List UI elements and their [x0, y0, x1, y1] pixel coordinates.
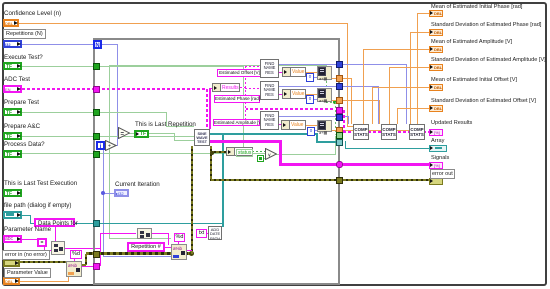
insert into array node 2 — [317, 88, 332, 102]
tunnel prepare a&c green — [93, 133, 100, 140]
wire prepare a&c green — [22, 136, 194, 137]
label Signals — [431, 155, 449, 161]
svg-text:=: = — [121, 132, 125, 138]
control Prepare A&C TF — [3, 132, 22, 140]
wire std amplitude riser — [389, 67, 390, 124]
wire fan stub find1 — [245, 66, 260, 67]
wire estimated phase const stub — [257, 99, 262, 100]
string constant Estimated Offset [V] — [217, 69, 262, 77]
vi SINE WAVE TEST — [194, 129, 210, 146]
string constant Data Points for — [34, 218, 75, 227]
wire iteration i vertical blue — [103, 150, 104, 257]
string constant space/equals — [37, 238, 47, 247]
vi FIND NAME RES 3 — [260, 111, 279, 130]
wire mean offset riser — [372, 87, 373, 124]
tunnel array2 orange right — [336, 97, 343, 104]
wire or-gate output green — [276, 154, 336, 155]
label Parameter Name — [4, 227, 51, 234]
wire find3 to value3 — [278, 124, 282, 125]
control error in cluster — [3, 259, 20, 267]
wire zero3 stub blue — [313, 130, 317, 131]
wire green horizontal to tunnel — [335, 134, 338, 135]
wire updated results chain — [343, 131, 429, 133]
junction dot error bottom — [189, 251, 194, 256]
wire row2 drop — [379, 100, 380, 124]
wire row3 reference blue — [278, 116, 336, 117]
wire value2 out orange — [306, 94, 317, 95]
wire zero1 stub blue — [313, 77, 317, 78]
wire file path teal stub — [22, 215, 31, 216]
wire equality output jog — [174, 133, 175, 141]
tunnel error out olive right — [336, 177, 343, 184]
vi COMP STATS 1 — [353, 124, 369, 140]
label Prepare Test — [4, 100, 39, 107]
numeric constant 0 row3 — [307, 127, 315, 136]
wire green dotted vertical right — [326, 81, 327, 103]
concatenate strings node 2 — [137, 228, 152, 239]
indicator std phase DBL — [429, 29, 443, 36]
wire std phase riser — [410, 32, 411, 124]
wire updated results dashed pink — [343, 110, 345, 132]
wire ref row1 blue outside — [343, 64, 407, 65]
wire std offset orange — [397, 108, 429, 109]
wire concat2 drop — [168, 233, 169, 245]
format into string node 1 — [66, 261, 82, 277]
vi ADD DATE PATH — [208, 226, 222, 240]
wire long green left vertical — [109, 65, 110, 238]
wire confidence vertical drop — [347, 23, 348, 126]
label Process Data? — [4, 142, 45, 149]
wire estimated offset const stub — [258, 73, 262, 74]
string constant Estimated Phase [rad] — [214, 95, 260, 103]
wire fan stub find3 — [245, 124, 260, 125]
wire prepare test green — [22, 112, 166, 113]
control Execute Test TF — [3, 62, 22, 70]
wire mean phase riser — [417, 13, 418, 124]
wire error riser to sine — [191, 146, 193, 254]
wire prepare test into sine vi — [166, 126, 194, 127]
wire signals thick pink from sine — [209, 140, 282, 143]
wire zero2 stub blue — [313, 99, 317, 100]
wire ADC to updated results tunnel dashed — [245, 108, 336, 110]
wire error to status unbundle — [211, 151, 226, 153]
wire ref row3 blue outside — [343, 116, 349, 117]
control Parameter Value DBL — [3, 277, 20, 285]
wire array jog — [345, 141, 346, 149]
wire std phase orange — [410, 32, 429, 33]
indicator std offset DBL — [429, 105, 443, 112]
string constant txt — [196, 229, 207, 238]
tunnel ref row2 blue right — [336, 83, 343, 90]
tunnel ref row1 blue right — [336, 61, 343, 68]
tunnel file path teal — [93, 220, 100, 227]
wire teal vertical to add date path — [222, 133, 224, 227]
control This is Last Test Execution TF — [3, 189, 22, 197]
wire parameter name pink — [22, 239, 44, 240]
increment node +1 — [105, 140, 117, 151]
control file path — [3, 211, 22, 219]
wire or output vertical up — [335, 136, 336, 155]
wire iteration to format into string — [103, 256, 171, 257]
indicator This is Last Repetition TF — [134, 130, 149, 138]
indicator Current Iteration I32 — [114, 189, 129, 197]
or node — [265, 148, 277, 160]
numeric constant 0 row1 — [306, 73, 314, 82]
insert into array node 1 — [317, 66, 332, 80]
label Standard Deviation of Estimated Amplitude [V] — [431, 57, 546, 63]
wire into sine wave test — [174, 140, 194, 141]
vi COMP STATS 2 — [381, 124, 397, 140]
junction dot green — [333, 100, 337, 104]
wire error thick into loop — [86, 252, 192, 255]
wire teal to array tunnel — [316, 141, 340, 143]
format into string node 2 — [171, 244, 187, 260]
concatenate strings node 1 — [51, 241, 65, 255]
tunnel array1 orange right — [336, 75, 343, 82]
wire mean offset orange — [372, 87, 429, 88]
wire repetition# into format2 — [165, 247, 171, 248]
indicator Updated Results — [429, 129, 443, 136]
tunnel prepare test green — [93, 109, 100, 116]
indicator mean amplitude DBL — [429, 46, 443, 53]
property node Results — [212, 83, 240, 92]
wire value1 out orange — [306, 72, 317, 73]
wire std offset riser — [397, 108, 398, 124]
wire concat1 output — [65, 248, 100, 249]
wire txt stub — [205, 233, 209, 234]
wire ref row2 blue outside — [343, 86, 379, 87]
wire error jog up — [85, 254, 87, 265]
label Array — [431, 138, 444, 144]
label Mean of Estimated Initial Offset [V] — [431, 77, 517, 83]
wire format1 string out — [82, 266, 100, 267]
svg-text:+: + — [108, 144, 111, 150]
property node Value 3 — [281, 120, 306, 130]
tunnel process data green — [93, 151, 100, 158]
control Repetitions I32 — [3, 40, 22, 48]
current iteration label — [115, 182, 160, 189]
wire format2 out stub — [186, 250, 192, 251]
tunnel ADC magenta — [93, 86, 100, 93]
wire signals to tunnel — [279, 163, 341, 166]
wire N to equality node — [102, 44, 118, 45]
label Confidence Level (n) — [4, 11, 61, 18]
wire confidence into COMP STATS 1 — [347, 126, 353, 127]
wire array3 out orange — [332, 130, 337, 131]
wire file path vertical — [30, 215, 31, 224]
wire results output dashed — [240, 87, 246, 88]
wire signals vertical — [279, 140, 282, 166]
wire signals outside loop — [343, 163, 429, 166]
label file path (dialog if empty) — [4, 203, 71, 210]
for loop border — [93, 38, 340, 285]
wire %d2 drop — [178, 241, 179, 245]
vi FIND NAME RES 1 — [260, 59, 279, 78]
indicator Array — [429, 145, 447, 152]
indicator mean offset DBL — [429, 84, 443, 91]
control Confidence Level DBL — [3, 19, 19, 27]
wire row1 reference blue — [278, 64, 341, 65]
wire branch to current iteration — [103, 193, 114, 194]
wire error out of format1 — [82, 264, 86, 266]
wire array indicator teal outside — [345, 148, 429, 149]
label Updated Results — [431, 120, 472, 126]
vi FIND NAME RES 2 — [260, 81, 279, 100]
wire execute test green — [22, 66, 243, 67]
wire confidence level orange to COMP STATS — [19, 23, 347, 24]
tunnel error in olive — [93, 251, 100, 258]
wire row3 array to comp stats3 — [342, 130, 409, 131]
wire error in dashed — [20, 261, 66, 263]
wire results fan vertical dashed — [245, 66, 246, 124]
wire ref row3 drop blue — [348, 116, 349, 124]
loop count terminal N — [93, 40, 102, 49]
string constant Estimated Amplitude [V] — [213, 119, 260, 126]
wire repetitions blue to N — [22, 44, 93, 45]
wire ref row1 drop blue — [406, 64, 407, 124]
tunnel string pink bottom — [93, 263, 100, 270]
equality node = — [118, 127, 130, 139]
label Mean of Estimated Initial Phase [rad] — [431, 4, 522, 10]
label error out boxed — [430, 169, 455, 179]
label Standard Deviation of Estimated Offset [V] — [431, 98, 536, 104]
property node Value 2 — [282, 89, 306, 99]
wire green into format node — [109, 238, 171, 239]
iteration terminal i — [96, 141, 105, 150]
wire row1 drop — [351, 78, 352, 124]
wire ADC test dashed magenta — [22, 88, 207, 90]
label Mean of Estimated Amplitude [V] — [431, 39, 512, 45]
wire error to tunnel — [211, 179, 341, 181]
wire ref row2 drop blue — [378, 86, 379, 124]
label Prepare A&C — [4, 124, 40, 131]
wire std amplitude orange — [389, 67, 429, 68]
wire array2 out orange — [332, 100, 341, 101]
tunnel array teal right — [336, 139, 343, 146]
junction dot current iteration — [101, 191, 105, 195]
tunnel signals pink right — [336, 161, 343, 168]
vi COMP STATS 3 — [409, 124, 425, 140]
wire sine array output teal — [209, 133, 317, 135]
wire row2 reference blue — [278, 86, 341, 87]
wire concat2 out — [152, 233, 169, 234]
label Execute Test? — [4, 55, 43, 62]
wire parameter value orange — [20, 281, 69, 282]
string constant Repetition # — [127, 242, 165, 252]
control Prepare Test TF — [3, 108, 22, 116]
indicator std amplitude DBL — [429, 64, 443, 71]
wire parameter name jog — [44, 239, 45, 250]
wire pink to concat2 — [100, 233, 136, 234]
wire into concat — [44, 250, 51, 251]
wire process data green — [22, 153, 266, 154]
wire status output green dotted — [252, 151, 265, 152]
wire sine error down — [210, 146, 212, 181]
boolean false constant — [257, 155, 264, 162]
wire value3 out orange — [306, 125, 317, 126]
wire mean amplitude orange — [363, 49, 429, 50]
label Repetitions (N) boxed — [3, 29, 46, 39]
wire F constant to or — [264, 158, 266, 159]
wire mean amplitude riser — [363, 49, 364, 124]
wire plus-one output — [115, 145, 118, 146]
wire mean phase orange — [417, 13, 429, 14]
string constant %d 2 — [174, 233, 185, 242]
wire row2 array to comp stats2 — [343, 100, 380, 101]
wire fan stub find2 — [245, 88, 260, 89]
wire N vertical to equality — [117, 44, 118, 146]
indicator mean initial phase DBL — [429, 10, 443, 17]
string constant %d 1 — [70, 250, 82, 259]
wire %d constant drop — [74, 258, 75, 262]
label Standard Deviation of Estimated Phase [rad] — [431, 22, 541, 28]
indicator Signals — [429, 162, 443, 169]
wire row1 array to comp stats1 — [343, 78, 352, 79]
insert into array node 3 — [317, 120, 332, 132]
control Process Data TF — [3, 150, 22, 158]
wire file path to add date path — [30, 223, 222, 224]
wire green dotted vertical 2 — [335, 102, 336, 134]
wire array1 out orange — [332, 78, 341, 79]
indicator error out — [429, 178, 443, 185]
wire equality output green — [129, 133, 174, 134]
junction dot error — [210, 151, 214, 155]
wire find2 to value2 — [278, 94, 282, 95]
wire ADC vertical dashed — [206, 89, 208, 130]
wire green dotted jog — [326, 102, 335, 103]
wire sine results output to unbundle — [209, 88, 211, 129]
tunnel array3 orange right — [336, 127, 343, 134]
wire parameter value riser — [68, 277, 69, 281]
svg-text:∨: ∨ — [268, 153, 272, 159]
label Parameter Value boxed — [4, 268, 51, 278]
label This is Last Repetition — [135, 122, 196, 129]
label ADC Test — [4, 77, 30, 84]
wire prepare test jog down — [166, 112, 167, 127]
wire data points for drop — [55, 226, 56, 241]
wire pink riser — [100, 233, 101, 266]
label error in (no error) boxed — [2, 250, 50, 260]
wire long green top branch — [109, 65, 327, 66]
tunnel execute test green — [93, 63, 100, 70]
wire find1 to value1 — [278, 72, 282, 73]
tunnel updated results pink right — [336, 107, 343, 114]
tunnel green right — [336, 132, 343, 139]
wire teal jog down — [316, 133, 318, 142]
property node Value 1 — [282, 67, 306, 77]
wire error out outside loop — [343, 179, 429, 181]
numeric constant 0 row2 — [306, 95, 314, 104]
control Parameter Name string — [3, 235, 22, 243]
wire execute test vertical — [243, 66, 244, 152]
control ADC Test enum — [3, 85, 22, 93]
unbundle status node — [226, 147, 253, 156]
tunnel ref row3 blue right — [336, 114, 343, 121]
label This is Last Test Execution — [4, 181, 77, 188]
